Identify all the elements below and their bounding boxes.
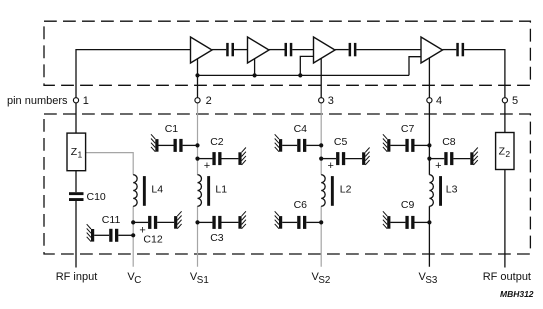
svg-text:C6: C6: [294, 199, 308, 211]
svg-text:+: +: [327, 160, 333, 172]
svg-text:C12: C12: [143, 234, 162, 246]
svg-text:S3: S3: [425, 275, 438, 286]
svg-text:L1: L1: [215, 184, 227, 196]
svg-text:2: 2: [206, 95, 212, 107]
svg-text:+: +: [204, 160, 210, 172]
svg-text:C11: C11: [102, 214, 121, 226]
svg-text:5: 5: [512, 95, 518, 107]
svg-text:C9: C9: [401, 199, 415, 211]
svg-text:+: +: [435, 160, 441, 172]
svg-text:L4: L4: [151, 184, 163, 196]
svg-text:1: 1: [78, 150, 83, 160]
svg-text:S1: S1: [197, 275, 209, 286]
svg-text:L2: L2: [340, 184, 352, 196]
svg-text:1: 1: [83, 95, 89, 107]
svg-text:2: 2: [505, 149, 510, 159]
svg-text:C5: C5: [334, 136, 348, 148]
svg-text:RF input: RF input: [56, 271, 98, 283]
svg-text:C3: C3: [210, 232, 224, 244]
svg-text:pin numbers: pin numbers: [7, 95, 68, 107]
svg-text:4: 4: [436, 95, 442, 107]
svg-text:C7: C7: [401, 123, 415, 135]
svg-text:MBH312: MBH312: [500, 289, 534, 299]
svg-text:C1: C1: [165, 123, 179, 135]
svg-text:RF output: RF output: [483, 271, 531, 283]
svg-text:L3: L3: [446, 184, 458, 196]
svg-text:C8: C8: [442, 136, 456, 148]
svg-text:C10: C10: [87, 191, 106, 203]
svg-text:S2: S2: [318, 275, 330, 286]
svg-text:3: 3: [328, 95, 334, 107]
svg-text:C2: C2: [210, 136, 224, 148]
svg-text:C: C: [134, 275, 141, 286]
svg-text:C4: C4: [294, 123, 308, 135]
